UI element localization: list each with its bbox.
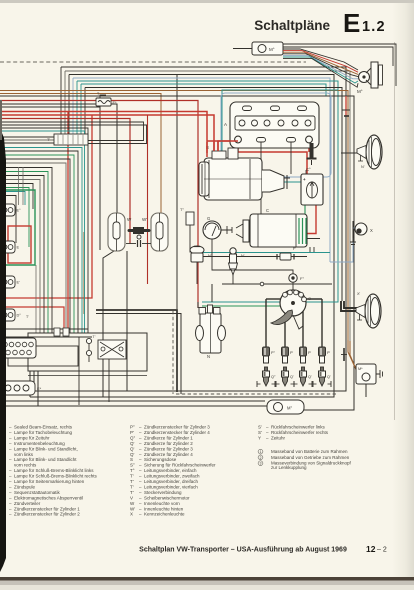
svg-text:Zündkerze für Zylinder 2: Zündkerze für Zylinder 2 — [144, 441, 193, 446]
svg-text:T': T' — [47, 138, 50, 142]
svg-text:Q': Q' — [308, 375, 312, 379]
svg-text:X: X — [130, 512, 133, 517]
svg-text:T': T' — [130, 479, 134, 484]
svg-text:P°: P° — [130, 425, 135, 430]
svg-text:Masseband von Getriebe zum Rah: Masseband von Getriebe zum Rahmen — [271, 455, 350, 460]
svg-text:S': S' — [258, 430, 262, 435]
svg-text:F*: F* — [113, 100, 117, 105]
svg-text:Q': Q' — [290, 375, 294, 379]
svg-text:Masseband von Batterie zum Rah: Masseband von Batterie zum Rahmen — [271, 449, 348, 454]
svg-text:X': X' — [357, 292, 361, 296]
svg-text:Schaltpläne: Schaltpläne — [254, 18, 330, 33]
svg-text:Rückfahrscheinwerfer links: Rückfahrscheinwerfer links — [271, 425, 326, 430]
svg-text:C°: C° — [306, 167, 311, 172]
svg-text:Leitungsverbinder, einfach: Leitungsverbinder, einfach — [144, 468, 197, 473]
svg-text:– 2: – 2 — [377, 547, 387, 554]
svg-text:Lampe für Schluß-Brems-Blinkli: Lampe für Schluß-Brems-Blinklicht links — [14, 468, 94, 473]
svg-text:Innenleuchte vorn: Innenleuchte vorn — [144, 501, 180, 506]
svg-text:Sicherung für Rückfahrscheinwe: Sicherung für Rückfahrscheinwerfer — [144, 463, 216, 468]
svg-text:M*: M* — [358, 367, 363, 371]
svg-text:N': N' — [361, 165, 365, 169]
svg-text:F°: F° — [300, 276, 304, 281]
svg-text:Leitungsverbinder, zweifach: Leitungsverbinder, zweifach — [144, 474, 200, 479]
svg-text:Lampe für Seitenmarkierung hin: Lampe für Seitenmarkierung hinten — [14, 479, 85, 484]
svg-text:1.2: 1.2 — [362, 19, 386, 35]
svg-text:E': E' — [17, 280, 21, 285]
svg-text:S': S' — [258, 425, 262, 430]
svg-text:Elektromagnetisches Absperrven: Elektromagnetisches Absperrventil — [14, 495, 83, 500]
svg-text:Lampe für Blink- und Standlich: Lampe für Blink- und Standlicht, — [14, 446, 78, 451]
svg-text:T': T' — [130, 484, 134, 489]
svg-text:E°: E° — [17, 208, 22, 213]
svg-text:Sicherungsdose: Sicherungsdose — [144, 457, 177, 462]
svg-text:V: V — [130, 495, 133, 500]
svg-text:T': T' — [130, 490, 134, 495]
svg-text:P': P' — [327, 351, 331, 355]
svg-text:F': F' — [293, 247, 296, 251]
svg-text:E: E — [17, 245, 20, 250]
svg-text:G: G — [207, 216, 210, 221]
svg-text:T°: T° — [130, 468, 135, 473]
svg-text:S: S — [130, 457, 133, 462]
svg-text:Leitungsverbinder, dreifach: Leitungsverbinder, dreifach — [144, 479, 199, 484]
svg-text:M°: M° — [269, 47, 275, 52]
svg-text:Lampe für Schluß-Brems-Blinkli: Lampe für Schluß-Brems-Blinklicht rechts — [14, 474, 98, 479]
svg-text:Sequenzstattautomatik: Sequenzstattautomatik — [14, 490, 61, 495]
svg-text:Zündkerze für Zylinder 1: Zündkerze für Zylinder 1 — [144, 435, 193, 440]
svg-text:N': N' — [241, 254, 245, 258]
svg-text:1: 1 — [260, 450, 262, 454]
svg-text:Zündkerze für Zylinder 3: Zündkerze für Zylinder 3 — [144, 446, 193, 451]
svg-text:Zündverteiler: Zündverteiler — [14, 501, 41, 506]
svg-text:Y: Y — [258, 435, 261, 440]
svg-text:Sealed Beam-Einsatz, rechts: Sealed Beam-Einsatz, rechts — [14, 425, 73, 430]
svg-text:3: 3 — [260, 462, 262, 466]
svg-text:Leitungsverbinder, vierfach: Leitungsverbinder, vierfach — [144, 484, 198, 489]
svg-text:Lampe für Blink- und Standlich: Lampe für Blink- und Standlicht — [14, 457, 77, 462]
svg-text:zur Lenkkupplung: zur Lenkkupplung — [271, 465, 307, 470]
svg-text:2: 2 — [260, 456, 262, 460]
svg-text:P': P' — [130, 430, 134, 435]
svg-text:E*: E* — [37, 386, 42, 391]
svg-text:Zündkerzenstecker für Zylinder: Zündkerzenstecker für Zylinder 3 — [144, 425, 210, 430]
svg-text:Lampe für Tachobeleuchtung: Lampe für Tachobeleuchtung — [14, 430, 72, 435]
svg-text:P°: P° — [271, 351, 276, 355]
svg-text:Zeituhr: Zeituhr — [271, 435, 286, 440]
svg-text:Scheibenwischermotor: Scheibenwischermotor — [144, 495, 190, 500]
svg-text:W': W' — [130, 506, 135, 511]
svg-text:Zündkerze für Zylinder 4: Zündkerze für Zylinder 4 — [144, 452, 193, 457]
svg-text:M°: M° — [357, 89, 363, 94]
svg-text:vorn rechts: vorn rechts — [14, 463, 37, 468]
svg-text:A: A — [224, 122, 227, 127]
svg-text:S°: S° — [130, 463, 135, 468]
svg-text:Schaltplan VW-Transporter – US: Schaltplan VW-Transporter – USA-Ausführu… — [139, 547, 347, 554]
svg-text:Lampe für Zeituhr: Lampe für Zeituhr — [14, 435, 50, 440]
svg-text:E: E — [343, 8, 360, 38]
svg-text:Innenleuchte hinten: Innenleuchte hinten — [144, 506, 184, 511]
svg-text:Rückfahrscheinwerfer rechts: Rückfahrscheinwerfer rechts — [271, 430, 329, 435]
svg-text:P': P' — [290, 351, 294, 355]
svg-text:Zündspule: Zündspule — [14, 484, 36, 489]
svg-text:T': T' — [130, 474, 134, 479]
svg-text:D°: D° — [17, 313, 22, 318]
svg-text:W': W' — [142, 217, 147, 222]
svg-text:X: X — [370, 228, 373, 233]
svg-text:N': N' — [208, 254, 212, 258]
svg-text:O: O — [308, 296, 311, 301]
svg-text:Zündkerzenstecker für Zylinder: Zündkerzenstecker für Zylinder 1 — [14, 506, 80, 511]
svg-text:Q°: Q° — [130, 435, 136, 440]
svg-text:T': T' — [26, 315, 29, 319]
svg-text:Kennzeichenleuchte: Kennzeichenleuchte — [144, 512, 185, 517]
svg-text:vorn links: vorn links — [14, 452, 34, 457]
svg-text:T': T' — [93, 335, 96, 339]
svg-text:12: 12 — [366, 544, 376, 554]
svg-text:N: N — [207, 354, 210, 359]
svg-text:P': P' — [308, 351, 312, 355]
svg-text:+: + — [303, 177, 306, 182]
svg-text:Q': Q' — [130, 452, 135, 457]
svg-text:Zündkerzenstecker für Zylinder: Zündkerzenstecker für Zylinder 2 — [14, 512, 80, 517]
svg-text:Q°: Q° — [271, 375, 276, 379]
svg-text:Q': Q' — [130, 441, 135, 446]
svg-text:Zündkerzenstecker für Zylinder: Zündkerzenstecker für Zylinder 4 — [144, 430, 210, 435]
svg-text:C: C — [266, 208, 269, 213]
svg-text:Q': Q' — [327, 375, 331, 379]
svg-text:Instrumentenbeleuchtung: Instrumentenbeleuchtung — [14, 441, 65, 446]
svg-text:M°: M° — [287, 406, 292, 411]
svg-text:T°: T° — [180, 208, 184, 212]
svg-text:Steckerverbindung: Steckerverbindung — [144, 490, 182, 495]
svg-text:Q': Q' — [130, 446, 135, 451]
